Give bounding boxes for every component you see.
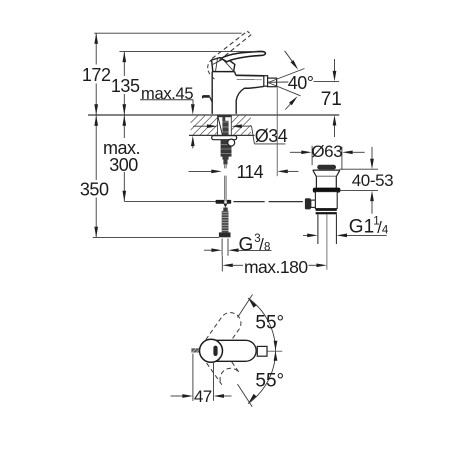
dimension 350 bottom line [93, 236, 219, 238]
threaded shank [222, 117, 228, 160]
mounting hole edges [218, 115, 232, 135]
dimension 47 [171, 354, 232, 407]
pop-up rod to waste [233, 201, 302, 203]
dimension max.180 [222, 256, 327, 277]
faucet body front view [212, 72, 264, 114]
plan dashed body rotated down 55 [202, 345, 239, 385]
angle arc lower 55 [248, 351, 276, 404]
label 55 lower [255, 370, 284, 391]
waste rod knob [305, 198, 311, 209]
faucet base edge in hole [217, 115, 231, 118]
G3/8 nut [219, 232, 231, 237]
plan body capsule [201, 340, 257, 361]
plan lever slot [213, 346, 217, 356]
svg-text:40-53: 40-53 [352, 171, 393, 190]
svg-text:G1: G1 [349, 217, 374, 238]
lever handle [221, 51, 265, 61]
waste flange [313, 170, 340, 188]
waste seal ring [313, 188, 341, 193]
dimension G1 1/4 [303, 216, 389, 238]
dimension 172 [82, 33, 111, 115]
deck hatching right of hole [231, 116, 250, 135]
dimension max.300 [103, 115, 140, 201]
reference line lever top [119, 51, 257, 53]
supply hose upper [225, 165, 226, 169]
svg-text:Ø63: Ø63 [311, 142, 342, 161]
angle 40 lower arrow [285, 96, 297, 109]
svg-text:114: 114 [237, 162, 264, 182]
dimension diameter 63 [290, 142, 365, 170]
arc arrow lower center [274, 351, 278, 361]
angle 40 side lines [268, 69, 305, 96]
dimension max.300 bottom line [124, 201, 215, 203]
plan dashed body rotated up 55 [202, 313, 241, 357]
waste rod connector [311, 200, 316, 207]
svg-text:8: 8 [264, 241, 270, 253]
angle 40 upper arrow [285, 51, 299, 70]
label 55 upper [255, 312, 284, 333]
svg-text:55°: 55° [255, 370, 284, 391]
plan 55 side line upper [238, 295, 253, 318]
plan centerline [267, 350, 282, 352]
dimension diameter 34 [193, 124, 288, 146]
shank tip [223, 157, 227, 165]
waste cap [317, 165, 336, 170]
washer [212, 136, 237, 140]
base cone line [218, 117, 222, 135]
plan outlet box [257, 346, 267, 356]
arc arrow upper end [248, 298, 256, 307]
svg-text:4: 4 [382, 225, 389, 237]
reference line lever raised tip [94, 32, 242, 34]
pop-up rod knob [203, 96, 213, 103]
supply hose lower [225, 176, 226, 200]
svg-text:47: 47 [194, 387, 212, 406]
angle 40 center line [268, 80, 339, 83]
G3/8 connector neck [223, 208, 227, 212]
lever boss [212, 58, 235, 72]
svg-text:300: 300 [109, 155, 138, 175]
mounting nut [221, 140, 232, 157]
deck hatching left of hole [191, 116, 218, 135]
dimension 114 [189, 162, 299, 182]
svg-text:172: 172 [82, 65, 111, 85]
arc arrow upper center [274, 341, 278, 351]
svg-text:40°: 40° [288, 73, 314, 93]
dimension 71 [321, 59, 342, 137]
angle arc upper 55 [248, 298, 276, 351]
waste centerline [326, 214, 328, 269]
drain rod guide hook [228, 139, 235, 146]
waste tailpipe G1 1/4 [318, 214, 337, 244]
dimension 350 [80, 115, 109, 237]
label 40 degrees [288, 73, 314, 93]
svg-text:max.180: max.180 [244, 257, 308, 277]
plan 55 side line lower [238, 384, 253, 407]
G3/8 threaded connector [222, 211, 229, 233]
svg-text:135: 135 [111, 76, 140, 96]
svg-text:G: G [239, 234, 254, 255]
svg-text:71: 71 [321, 89, 342, 110]
spout outlet joint [264, 76, 268, 87]
spout top edge [236, 75, 264, 79]
waste coupling band [316, 209, 337, 215]
label max.45 [140, 85, 195, 115]
deck bottom line [189, 134, 255, 136]
dimension 135 [111, 52, 140, 115]
svg-text:350: 350 [80, 180, 109, 200]
arc arrow lower end [248, 394, 256, 403]
aerator box [268, 78, 277, 87]
deck top reference line [88, 114, 339, 116]
plan supply stub [191, 348, 201, 352]
lever boss dashed arc [208, 58, 215, 79]
waste body [315, 192, 337, 209]
max.45 lower arrow [191, 136, 195, 149]
dimension G3/8 [204, 233, 272, 256]
plan pivot circle [200, 339, 223, 362]
lever raised dashed [212, 31, 251, 60]
dimension 40-53 [339, 147, 393, 214]
svg-text:55°: 55° [255, 312, 284, 333]
junction pivot drop [224, 204, 228, 208]
spout outlet projection line [276, 87, 278, 176]
rod junction block [216, 200, 232, 204]
svg-text:Ø34: Ø34 [255, 126, 288, 146]
